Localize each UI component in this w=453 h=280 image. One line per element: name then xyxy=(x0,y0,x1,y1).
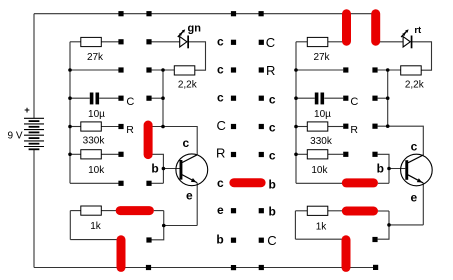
svg-text:e: e xyxy=(411,191,418,205)
svg-text:C: C xyxy=(350,96,358,108)
svg-text:330k: 330k xyxy=(83,136,106,147)
svg-text:b: b xyxy=(151,162,158,176)
wire R3 to socket xyxy=(101,153,118,155)
svg-text:+: + xyxy=(24,105,30,116)
svg-text:330k: 330k xyxy=(310,136,333,147)
wire emitter node right vertical xyxy=(378,211,389,239)
wire row3 left to C1 xyxy=(70,97,90,99)
wire emitter Q2 down xyxy=(422,183,424,225)
wire R9 row top xyxy=(295,210,307,212)
svg-text:e: e xyxy=(186,189,193,203)
svg-text:C: C xyxy=(217,118,226,133)
wire emitter node right horizontal xyxy=(389,224,423,226)
transistor Q1 xyxy=(176,154,208,186)
sockets column A left xyxy=(118,39,123,186)
wire bottom ground rail xyxy=(34,267,376,269)
jumper red horizontal 1k row right xyxy=(346,207,373,216)
svg-text:R: R xyxy=(266,63,275,78)
svg-text:b: b xyxy=(269,205,276,219)
sockets column B left xyxy=(146,39,151,242)
jumper red vertical to ground left xyxy=(117,240,126,268)
wire jumper to LED D2 xyxy=(380,41,403,43)
wire row3 stub xyxy=(152,97,164,99)
wire battery positive lead xyxy=(33,14,35,119)
wire emitter Q1 down xyxy=(196,183,198,226)
wire row6 right stub xyxy=(378,182,389,184)
resistor R8 10k xyxy=(307,150,328,176)
wire row4 to collector Q1 xyxy=(152,127,197,155)
wire row5 right stub to base column xyxy=(378,154,389,183)
wire base Q1 xyxy=(163,168,179,170)
jumper red horizontal middle row6 xyxy=(234,178,261,187)
svg-text:c: c xyxy=(182,136,189,150)
svg-text:c: c xyxy=(217,91,224,105)
wire row5 left to R3 xyxy=(70,153,81,155)
wire socket to R5 left xyxy=(152,69,175,71)
svg-text:R: R xyxy=(216,146,225,161)
sockets top rail xyxy=(118,11,263,16)
svg-text:b: b xyxy=(269,177,276,191)
svg-text:c: c xyxy=(217,176,224,190)
resistor R9 1k xyxy=(307,206,328,232)
battery BT1 9V xyxy=(24,118,44,149)
node letters middle left column xyxy=(216,34,226,246)
wire row3 right cap xyxy=(296,97,315,99)
LED D2 red xyxy=(401,29,412,48)
svg-text:c: c xyxy=(217,63,224,77)
wire C2 to socket xyxy=(324,97,343,99)
svg-text:C: C xyxy=(267,233,276,248)
wire row6 left xyxy=(70,182,119,184)
wire R4 to jumper xyxy=(101,210,116,212)
junction dots left bus xyxy=(68,68,72,156)
wire row6 right xyxy=(296,182,342,184)
svg-text:2,2k: 2,2k xyxy=(178,80,198,91)
wire R9 to jumper xyxy=(327,210,342,212)
wire top supply rail xyxy=(34,13,376,15)
jumper red vertical column B rows4-5 xyxy=(144,125,153,155)
wire emitter node horizontal xyxy=(164,225,197,227)
svg-text:27k: 27k xyxy=(313,52,330,63)
svg-text:e: e xyxy=(217,203,224,217)
wire C1 to socket xyxy=(99,97,118,99)
wire right bus vertical xyxy=(295,42,297,184)
sockets middle column C xyxy=(231,40,236,243)
capacitor C2 10µ xyxy=(314,93,331,120)
wire row4 right to collector Q2 xyxy=(378,126,424,155)
svg-text:R: R xyxy=(126,124,134,136)
wire battery negative lead xyxy=(33,149,35,267)
junction dots right column nodes xyxy=(386,68,391,227)
junction dots left column nodes xyxy=(161,68,165,227)
svg-text:gn: gn xyxy=(187,22,201,34)
wire row4 left to R2 xyxy=(70,126,81,128)
svg-text:c: c xyxy=(269,121,276,135)
wire row4 right to R7 xyxy=(296,126,307,128)
wire R2 to socket xyxy=(101,126,118,128)
svg-text:b: b xyxy=(216,232,223,246)
wire left bus vertical xyxy=(69,42,71,184)
wire socket to R10 left xyxy=(378,69,401,71)
wire R8 to socket xyxy=(328,153,343,155)
wire emitter node vertical xyxy=(152,211,164,240)
wire base Q2 xyxy=(389,168,405,170)
jumper red horizontal row6 right xyxy=(346,178,373,187)
svg-text:2,2k: 2,2k xyxy=(405,79,425,90)
sockets column B right xyxy=(372,67,377,242)
wire row2 right xyxy=(296,69,343,71)
svg-text:1k: 1k xyxy=(90,221,102,232)
svg-text:R: R xyxy=(350,124,358,136)
wire row2 left xyxy=(70,69,119,71)
jumper red vertical supply A right xyxy=(342,14,351,41)
LED D1 green xyxy=(178,29,189,48)
wire R4 block left vertical xyxy=(69,211,71,240)
svg-text:c: c xyxy=(217,34,224,48)
svg-text:C: C xyxy=(266,35,275,50)
svg-text:C: C xyxy=(126,96,134,108)
svg-text:10µ: 10µ xyxy=(314,109,331,120)
wire right junction column xyxy=(387,70,389,126)
wire R9 block left vertical xyxy=(294,211,296,239)
svg-text:c: c xyxy=(411,140,418,154)
wire R9 block bottom xyxy=(295,238,341,240)
jumper red vertical to ground right xyxy=(342,240,351,268)
wire R1 to socket xyxy=(101,41,118,43)
resistor R6 27k xyxy=(307,37,330,62)
jumper red horizontal 1k row left xyxy=(120,206,149,215)
wire row5 stub to base column xyxy=(152,154,163,183)
wire R4 block bottom xyxy=(70,239,117,241)
resistor R10 2,2k xyxy=(401,66,425,91)
wire row1 left to R1 xyxy=(70,41,81,43)
resistor R2 330k xyxy=(81,122,106,147)
svg-text:c: c xyxy=(269,92,276,106)
jumper red vertical supply B right xyxy=(371,14,380,41)
node letters middle right column xyxy=(266,35,277,248)
resistor R3 10k xyxy=(81,150,105,176)
wire D2 cathode to R10 xyxy=(412,42,432,70)
resistor R1 27k xyxy=(81,37,104,62)
wire row6 stub xyxy=(152,182,164,184)
svg-text:rt: rt xyxy=(414,25,422,36)
resistor R4 1k xyxy=(81,206,102,232)
capacitor C1 10µ xyxy=(88,93,105,120)
wire jumper to emitter column xyxy=(154,210,164,212)
wire left junction column xyxy=(162,70,164,127)
transistor Q2 xyxy=(401,154,433,186)
wire socket to LED D1 xyxy=(152,41,180,43)
wire row3 right stub xyxy=(378,97,388,99)
resistor R5 2,2k xyxy=(174,66,197,91)
wire R4 row top xyxy=(70,210,81,212)
wire jumper to emitter column right xyxy=(378,210,389,212)
wire row5 right to R8 xyxy=(296,153,307,155)
svg-text:27k: 27k xyxy=(87,52,104,63)
wire D1 cathode to R5 xyxy=(189,42,206,70)
sockets bottom rail xyxy=(146,265,378,270)
svg-text:9 V: 9 V xyxy=(7,131,22,142)
svg-text:b: b xyxy=(377,161,384,175)
sockets middle column D xyxy=(259,40,264,243)
svg-text:10k: 10k xyxy=(311,165,328,176)
svg-text:10µ: 10µ xyxy=(88,109,105,120)
wire row1 right to R6 xyxy=(296,41,307,43)
wire R7 to socket xyxy=(328,126,343,128)
resistor R7 330k xyxy=(307,122,333,147)
wire R6 to jumper xyxy=(328,41,343,43)
svg-text:10k: 10k xyxy=(88,165,105,176)
svg-text:1k: 1k xyxy=(316,222,328,233)
svg-text:c: c xyxy=(269,148,276,162)
sockets column A right xyxy=(343,67,348,156)
junction dots right bus xyxy=(294,68,298,156)
